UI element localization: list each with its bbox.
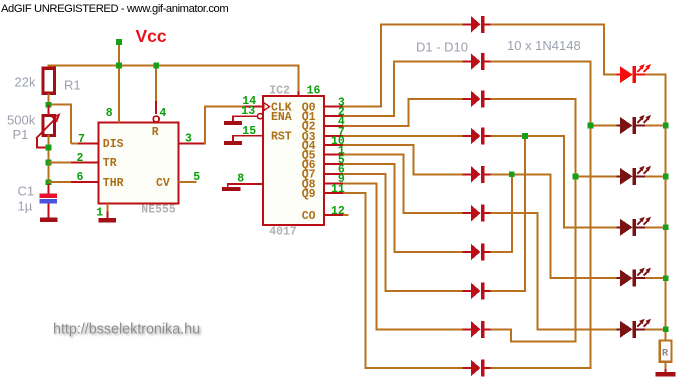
svg-text:AdGIF UNREGISTERED - www.gif-a: AdGIF UNREGISTERED - www.gif-animator.co…: [1, 3, 228, 15]
svg-text:NE555: NE555: [141, 204, 176, 217]
Vcc port square: [116, 39, 122, 45]
LED LED1: [617, 74, 622, 76]
wire NE555 pin5 CV stub: [179, 181, 197, 183]
wire NE555 pin3 output: [179, 142, 205, 144]
svg-text:4: 4: [159, 107, 166, 120]
node bus/LED6 junction: [663, 326, 669, 332]
wire wiper hook to junction below P1: [37, 138, 46, 147]
svg-text:22k: 22k: [15, 75, 36, 90]
diode D6: [463, 212, 471, 214]
wire R1 to junction: [48, 94, 50, 105]
wire C1 to ground: [48, 203, 50, 218]
wire Vcc port to rail: [118, 45, 120, 65]
ground R: [656, 372, 676, 377]
svg-text:1: 1: [96, 207, 103, 220]
pin 4 inversion bubble: [153, 116, 159, 122]
wire Q7 stub: [324, 173, 344, 175]
wire P1 top stub: [48, 105, 50, 116]
P1 wiper arrow: [36, 118, 57, 139]
wire Q2 to D3: [343, 99, 463, 126]
svg-text:8: 8: [106, 107, 113, 120]
wire LED3 anode tap: [576, 175, 617, 177]
wire D8 riser up: [490, 136, 525, 291]
wire D1 to LED1: [490, 24, 616, 74]
wire Q5 to D6: [343, 155, 463, 214]
svg-text:11: 11: [331, 183, 345, 196]
svg-text:4017: 4017: [269, 226, 297, 239]
wire junction to DIS (right+down): [51, 105, 71, 144]
wire rail down to R1: [48, 65, 50, 69]
svg-text:16: 16: [307, 85, 321, 98]
ground ENA: [224, 121, 242, 125]
svg-text:DIS: DIS: [103, 138, 124, 151]
ground C1: [40, 218, 58, 223]
wire P1 bottom to THR junction: [48, 135, 50, 185]
node D3/D9/LED3 junction: [573, 174, 579, 180]
wire Q6 stub: [324, 163, 344, 165]
diode D4: [463, 135, 471, 137]
wire pin3 up and to 4017 CLK: [205, 107, 244, 145]
wire Q7 to D8: [343, 174, 463, 291]
wire LED2 anode tap: [591, 125, 617, 127]
wire D2/D10 riser: [490, 62, 590, 368]
wire Q9 stub: [324, 192, 344, 194]
diode D10: [463, 367, 471, 369]
node D4/D8 junction: [522, 133, 528, 139]
svg-text:D1 - D10: D1 - D10: [416, 40, 468, 55]
capacitor C1 plate -: [40, 199, 57, 203]
ENA inversion bubble: [257, 114, 262, 119]
LED LED3: [617, 175, 622, 177]
resistor R1: [43, 68, 55, 93]
svg-text:10 x 1N4148: 10 x 1N4148: [507, 38, 581, 53]
wire Q6 to D7: [343, 164, 463, 252]
node bus/LED3 junction: [663, 174, 669, 180]
wire LED5 cathode to bus: [645, 277, 667, 279]
diode D1: [463, 23, 471, 25]
wire Q4 stub: [324, 144, 344, 146]
wire D3 riser down: [490, 99, 575, 342]
wire Q4 to D5: [343, 145, 463, 174]
resistor R (LED current limit): [660, 341, 672, 362]
wire Q8 to D9: [343, 183, 463, 329]
svg-text:C1: C1: [18, 184, 35, 199]
diode D8: [463, 290, 471, 292]
LED LED5: [617, 277, 622, 279]
svg-text:ENA: ENA: [271, 111, 292, 124]
node wiper junction: [46, 145, 52, 151]
svg-text:RST: RST: [271, 131, 292, 144]
svg-text:1µ: 1µ: [18, 199, 33, 214]
counter 4017 IC2 box: [263, 96, 324, 225]
diode D2: [463, 61, 471, 63]
wire RST to ground: [233, 136, 263, 141]
diode D7: [463, 251, 471, 253]
node rail/pin8 junction: [116, 63, 122, 69]
svg-text:THR: THR: [103, 177, 124, 190]
node TR junction: [46, 160, 52, 166]
node bus/LED4 junction: [663, 224, 669, 230]
wire Q5 stub: [324, 154, 344, 156]
wire Q3 stub: [324, 135, 344, 137]
wire R to ground: [665, 362, 667, 369]
wire Q0 stub: [324, 106, 344, 108]
svg-text:R: R: [152, 126, 159, 139]
svg-text:R1: R1: [64, 78, 81, 93]
wire VSS pin8 to ground: [228, 184, 263, 187]
wire DIS to NE555 pin7: [71, 142, 98, 144]
ground RST: [224, 141, 242, 145]
wire 4017 pin16 to Vcc rail: [298, 67, 300, 96]
wire Q8 stub: [324, 182, 344, 184]
ground VSS: [222, 187, 241, 191]
wire LED1 cathode to bus: [645, 74, 667, 76]
LED LED6: [617, 328, 622, 330]
node D5/D7 junction: [509, 171, 515, 177]
diode D5: [463, 173, 471, 175]
svg-text:CV: CV: [156, 177, 170, 190]
wire Q3 to D4: [343, 135, 463, 137]
svg-text:Q9: Q9: [302, 188, 316, 201]
LED LED4: [617, 226, 622, 228]
wire D5 row to LED5: [490, 174, 616, 278]
wire LED cathode bus: [665, 75, 667, 341]
LED LED2: [617, 125, 622, 127]
wire D4 row to LED4: [490, 136, 616, 227]
op-amp/timer NE555 U1 box: [98, 122, 178, 203]
wire Q1 to D2: [343, 62, 463, 117]
node THR junction: [46, 179, 52, 185]
wire Q2 stub: [324, 125, 344, 127]
svg-text:TR: TR: [103, 157, 117, 170]
wire CLK stub: [243, 106, 262, 108]
wire Vcc rail: [48, 65, 300, 67]
wire LED2 cathode to bus: [645, 125, 667, 127]
svg-text:Vcc: Vcc: [136, 26, 167, 46]
svg-text:R: R: [662, 348, 669, 360]
wire LED6 cathode to bus: [645, 328, 667, 330]
wire Q9 to D10: [343, 193, 463, 368]
wire THR tap to NE555 pin6: [49, 181, 99, 183]
node R1/P1 junction: [46, 102, 52, 108]
svg-text:CO: CO: [302, 210, 316, 223]
svg-text:6: 6: [77, 171, 84, 184]
wire Q0 to D1: [343, 24, 463, 106]
capacitor C1 stub top: [48, 184, 50, 194]
svg-text:12: 12: [331, 205, 345, 218]
svg-text:2: 2: [77, 152, 84, 165]
potentiometer P1: [43, 116, 55, 136]
node rail/pin4 junction: [153, 63, 159, 69]
svg-text:IC2: IC2: [269, 85, 290, 98]
wire NE555 pin1 to ground: [106, 203, 108, 211]
node bus/LED2 junction: [663, 123, 669, 129]
wire ENA to ground: [233, 116, 257, 121]
capacitor C1 plate +: [40, 194, 57, 198]
wire D6 to LED6: [490, 213, 616, 329]
wire CO stub: [324, 214, 343, 216]
svg-text:7: 7: [78, 133, 85, 146]
diode D3: [463, 98, 471, 100]
diode D9: [463, 328, 471, 330]
wire rail to pin4: [155, 66, 157, 102]
ground NE555 pin1: [99, 218, 117, 223]
svg-text:http://bsselektronika.hu: http://bsselektronika.hu: [53, 322, 200, 338]
wire LED4 cathode to bus: [645, 226, 667, 228]
wire rail to NE555 pin8: [118, 66, 120, 123]
wire LED3 cathode to bus: [645, 175, 667, 177]
node D2/D10/LED2 junction: [588, 123, 594, 129]
wire Q1 stub: [324, 115, 344, 117]
CLK input triangle: [264, 103, 270, 111]
svg-text:500k: 500k: [7, 113, 36, 128]
wire D7 riser up: [490, 174, 511, 252]
svg-text:P1: P1: [13, 127, 29, 142]
node bus/LED5 junction: [663, 275, 669, 281]
wire TR tap to NE555 pin2: [49, 161, 99, 163]
